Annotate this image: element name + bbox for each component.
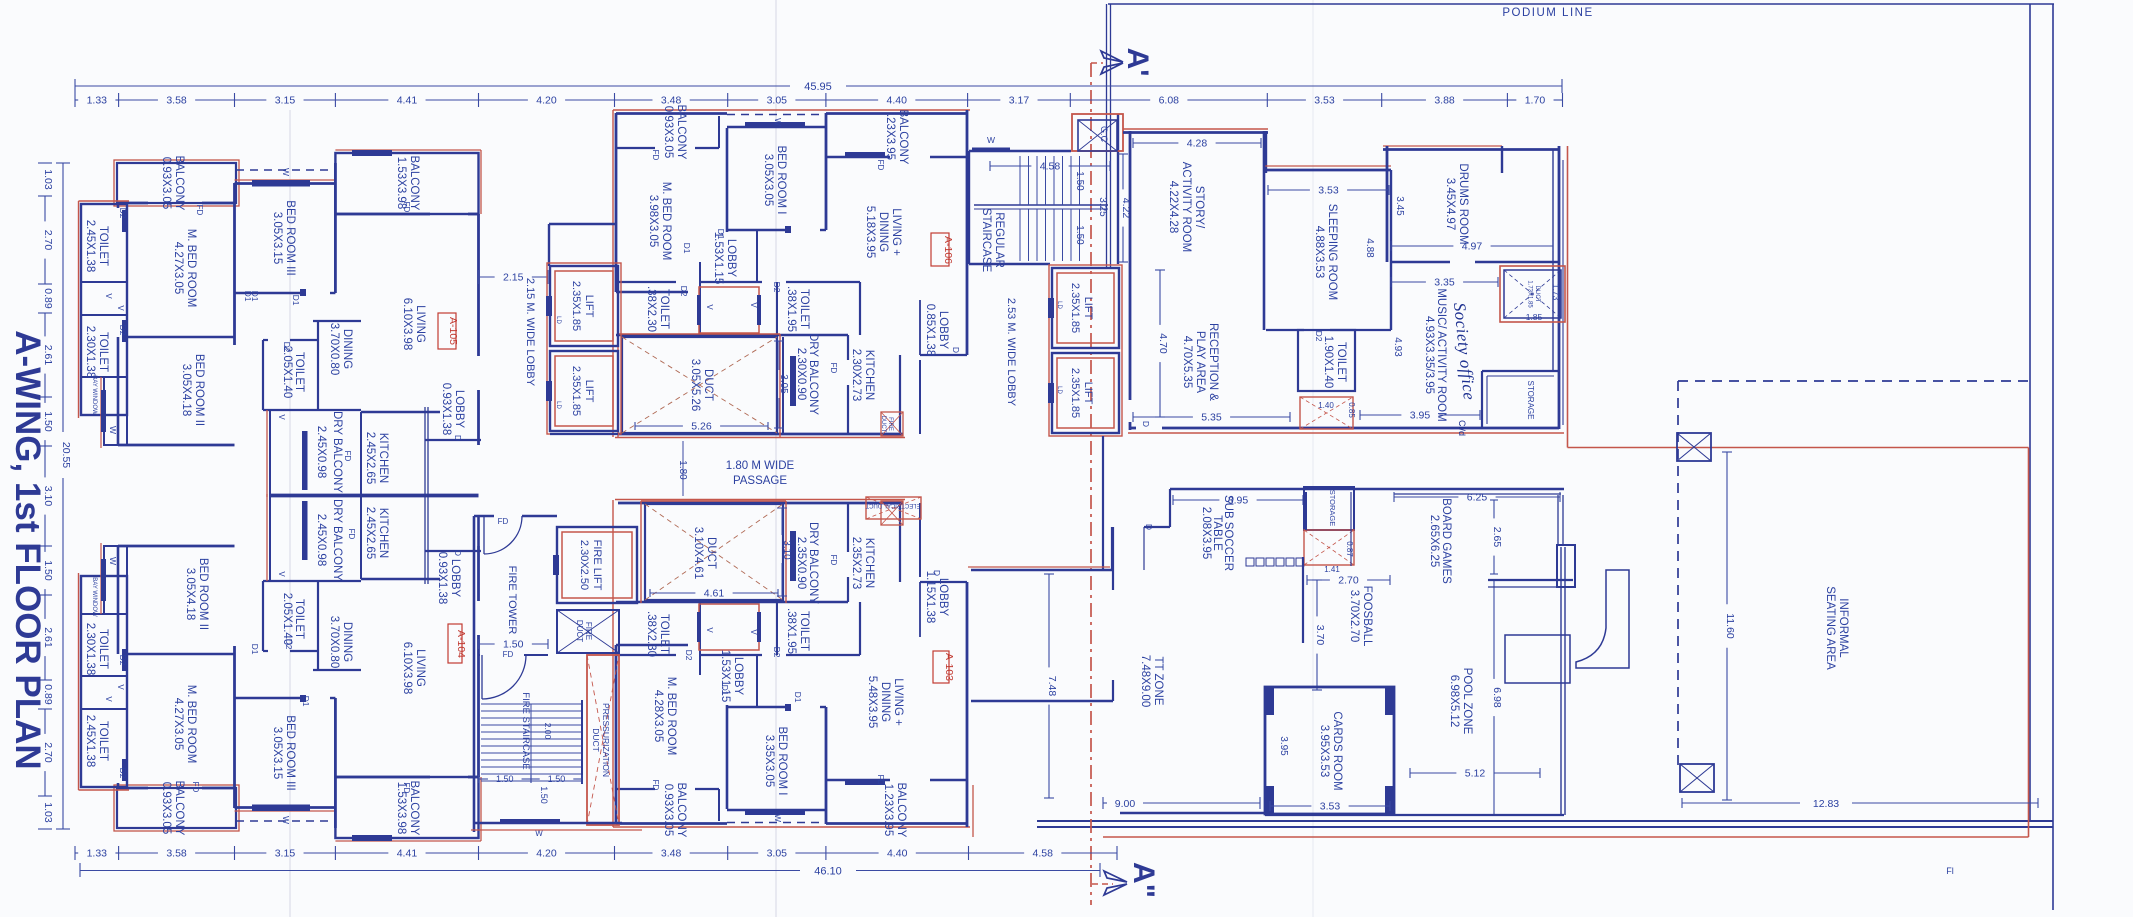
svg-text:FIRE LIFT: FIRE LIFT [591, 540, 603, 591]
svg-text:BAY WINDOW: BAY WINDOW [91, 577, 97, 617]
svg-text:M. BED ROOM: M. BED ROOM [665, 677, 677, 756]
svg-text:M. BED ROOM: M. BED ROOM [185, 685, 197, 764]
svg-text:D2: D2 [772, 282, 782, 293]
svg-text:4.20: 4.20 [536, 95, 557, 107]
svg-text:LD: LD [1056, 386, 1062, 394]
svg-text:STORY/: STORY/ [1193, 186, 1205, 229]
svg-text:6.10X3.98: 6.10X3.98 [401, 642, 413, 694]
right lift 2 door [1048, 383, 1054, 403]
electrical duct red box [866, 497, 921, 519]
rec storage walls [1304, 487, 1354, 530]
svg-text:4.70: 4.70 [1157, 333, 1169, 354]
svg-text:W: W [108, 557, 118, 565]
drums room top wall [1383, 148, 1559, 151]
svg-text:3.05X3.15: 3.05X3.15 [271, 727, 283, 779]
A-106 bottom red line [615, 437, 905, 439]
svg-text:TOILET: TOILET [798, 611, 810, 651]
BED ROOM III top wall [235, 182, 336, 185]
svg-text:BED ROOM I: BED ROOM I [776, 726, 788, 795]
drums top-right jog [1501, 146, 1503, 173]
svg-text:1.73X1.85: 1.73X1.85 [1527, 280, 1533, 308]
living room right wall lower [477, 390, 480, 445]
A-106 top outer wall left [616, 112, 727, 115]
dim 4.70 [1155, 269, 1165, 271]
svg-text:V: V [749, 629, 758, 635]
toilet band top wall with D2 gaps [786, 281, 860, 283]
svg-text:D1: D1 [250, 644, 260, 655]
fire lift door [553, 555, 559, 575]
svg-text:PLAY AREA: PLAY AREA [1194, 331, 1206, 394]
kitchen / dry balcony wall [360, 412, 362, 496]
svg-text:LOBBY: LOBBY [732, 657, 744, 696]
lobby left wall [919, 300, 921, 355]
svg-text:BALCONY: BALCONY [173, 156, 185, 211]
svg-text:1.80 M WIDE: 1.80 M WIDE [726, 460, 795, 472]
svg-text:1.40: 1.40 [1318, 401, 1334, 410]
svg-text:BALCONY: BALCONY [675, 105, 687, 160]
living room right wall upper [477, 214, 480, 356]
fire lift red cage [562, 532, 632, 598]
svg-text:POOL ZONE: POOL ZONE [1461, 668, 1473, 735]
svg-text:4.40: 4.40 [887, 95, 908, 107]
wall below toilet 2.05 / dry balcony top [263, 409, 361, 411]
svg-text:3.05: 3.05 [767, 95, 788, 107]
sleeping room top wall [1266, 169, 1391, 172]
svg-text:BED ROOM II: BED ROOM II [197, 558, 209, 630]
A-106 top outer wall right [826, 112, 967, 115]
svg-text:ELECTRICAL DUCT: ELECTRICAL DUCT [865, 502, 920, 508]
svg-text:0.93X3.05: 0.93X3.05 [662, 106, 674, 158]
svg-text:TOILET: TOILET [97, 629, 109, 669]
toilet2 left wall [776, 282, 778, 335]
svg-text:3.70X0.80: 3.70X0.80 [328, 616, 340, 668]
wall between shaft and toilet 2 [81, 314, 127, 316]
wing small duct box [1300, 397, 1353, 429]
A-105 toilet block red outline [78, 201, 80, 418]
svg-text:LIVING: LIVING [414, 649, 426, 687]
svg-text:D1: D1 [682, 243, 692, 254]
svg-text:FD: FD [343, 451, 352, 462]
svg-text:1.15X1.38: 1.15X1.38 [924, 571, 936, 623]
entry lobby bottom wall [425, 439, 481, 441]
svg-text:D2: D2 [118, 655, 128, 666]
svg-text:LIFT: LIFT [583, 380, 595, 403]
TT zone bottom wall [1120, 812, 1265, 814]
svg-text:7.48: 7.48 [1046, 676, 1058, 697]
window band near staircase [972, 148, 1010, 153]
wing right wall [1558, 146, 1561, 429]
outer notch wall [269, 410, 271, 496]
svg-text:11.60: 11.60 [1724, 613, 1736, 639]
drums room red top line [1383, 145, 1502, 147]
svg-text:4.22X4.28: 4.22X4.28 [1167, 181, 1179, 233]
svg-text:1.50: 1.50 [548, 774, 566, 784]
dimension 12.83 [1682, 802, 1800, 804]
svg-text:ACTIVITY ROOM: ACTIVITY ROOM [1180, 162, 1192, 253]
wing right wall inner line [1562, 160, 1564, 425]
svg-text:D1: D1 [720, 685, 730, 696]
dimension 2.15 lobby width [478, 270, 480, 284]
svg-text:LIFT: LIFT [583, 295, 595, 318]
G.C crossed box [1078, 120, 1117, 151]
BED ROOM III red top line [235, 179, 336, 181]
svg-text:2.45X1.38: 2.45X1.38 [84, 715, 96, 767]
svg-text:0.93X1.38: 0.93X1.38 [440, 383, 452, 435]
svg-text:3.70X2.70: 3.70X2.70 [1348, 590, 1360, 642]
rec top-left jog [1169, 489, 1171, 527]
svg-text:2.35X1.85: 2.35X1.85 [570, 366, 582, 416]
svg-text:BED ROOM I: BED ROOM I [775, 145, 787, 214]
svg-text:V: V [116, 684, 125, 690]
dining alcove left wall [317, 321, 319, 410]
svg-text:3.95X3.53: 3.95X3.53 [1318, 725, 1330, 777]
bay window glazing band [101, 390, 106, 432]
fire duct crossed box [557, 610, 619, 653]
informal seating dashed boundary [1678, 380, 2028, 382]
fire stair bottom wall [474, 822, 622, 825]
dimension 7.48 [1044, 573, 1054, 575]
step wall to pillar [1557, 495, 1559, 545]
svg-text:.38X1.95: .38X1.95 [785, 608, 797, 654]
svg-text:3.17: 3.17 [1009, 95, 1030, 107]
svg-text:D2: D2 [282, 342, 292, 353]
fire tower outer left wall [473, 516, 476, 832]
svg-text:4.88X3.53: 4.88X3.53 [1313, 226, 1325, 278]
svg-text:2.30X0.90: 2.30X0.90 [795, 348, 807, 400]
wing toilet walls [1298, 330, 1355, 391]
handwritten society office note [1450, 302, 1479, 402]
svg-text:.38X1.95: .38X1.95 [785, 286, 797, 332]
svg-text:2.15 M. WIDE LOBBY: 2.15 M. WIDE LOBBY [524, 278, 536, 387]
svg-text:1.33: 1.33 [87, 95, 108, 107]
storage top wall [1482, 370, 1559, 372]
red line on corridor wall [968, 566, 1110, 568]
svg-text:W: W [773, 118, 783, 126]
A-106 red top outline [613, 109, 970, 111]
svg-text:TOILET: TOILET [293, 352, 305, 392]
section arrow A&quot; (bottom) [1104, 871, 1127, 882]
svg-text:3.53: 3.53 [1320, 801, 1341, 813]
sleeping room bottom wall with D2 gap [1330, 329, 1391, 331]
dimension 4.22 right of staircase [1118, 153, 1128, 155]
svg-text:KITCHEN: KITCHEN [377, 433, 389, 483]
svg-text:LOBBY: LOBBY [937, 578, 949, 617]
svg-text:3.05X4.18: 3.05X4.18 [184, 568, 196, 620]
svg-text:2.70: 2.70 [42, 230, 54, 251]
svg-text:TOILET: TOILET [1335, 342, 1347, 382]
svg-text:FD: FD [402, 783, 411, 794]
svg-text:4.93X3.35/3.95: 4.93X3.35/3.95 [1423, 316, 1435, 394]
kitchen right wall [919, 360, 921, 434]
svg-text:FD: FD [191, 782, 200, 793]
A-106 internal lobby wall [756, 230, 758, 282]
svg-text:FIRE STAIRCASE: FIRE STAIRCASE [520, 692, 531, 769]
svg-text:1.53X1.15: 1.53X1.15 [712, 232, 724, 284]
svg-text:V: V [277, 571, 286, 577]
svg-text:3.05X5.26: 3.05X5.26 [689, 359, 701, 411]
svg-text:DRUMS ROOM: DRUMS ROOM [1457, 163, 1469, 244]
rec duct red box [1304, 530, 1354, 565]
svg-text:BALCONY: BALCONY [895, 783, 907, 838]
wall above dining alcove [313, 320, 361, 322]
svg-text:STORAGE: STORAGE [1328, 490, 1337, 527]
svg-text:V: V [705, 304, 714, 310]
pillar [1557, 545, 1575, 587]
svg-text:3.35: 3.35 [1434, 277, 1455, 289]
svg-text:D1: D1 [250, 291, 260, 302]
svg-text:3.58: 3.58 [166, 95, 187, 107]
svg-text:4.58: 4.58 [1040, 161, 1061, 173]
lift 2 red cage [555, 356, 613, 426]
svg-text:3.45X4.97: 3.45X4.97 [1444, 178, 1456, 230]
wing red top line [1123, 128, 1268, 130]
svg-text:TOILET: TOILET [658, 289, 670, 329]
svg-text:2.35X1.85: 2.35X1.85 [1069, 283, 1081, 333]
A-106 tag box [931, 233, 949, 266]
svg-text:TOILET: TOILET [97, 226, 109, 266]
pool area wall y580 [1488, 579, 1573, 581]
svg-text:FD: FD [498, 517, 509, 526]
svg-text:KITCHEN: KITCHEN [863, 350, 875, 400]
rec top wall inner line [1394, 493, 1561, 495]
toilet1 right wall [699, 282, 701, 335]
svg-text:RECEPTION &: RECEPTION & [1207, 323, 1219, 401]
svg-text:1.03: 1.03 [42, 802, 54, 823]
svg-text:FD: FD [651, 150, 660, 161]
right lift 1 door [1048, 298, 1054, 318]
svg-text:12.83: 12.83 [1813, 798, 1839, 810]
svg-text:PRESSURIZATION: PRESSURIZATION [601, 703, 611, 777]
svg-text:4.28X3.05: 4.28X3.05 [652, 690, 664, 742]
svg-text:2.53 M. WIDE LOBBY: 2.53 M. WIDE LOBBY [1005, 298, 1017, 407]
svg-text:BED ROOM III: BED ROOM III [284, 200, 296, 275]
svg-text:4.27X3.05: 4.27X3.05 [172, 242, 184, 294]
drums/storage strip inner wall [1552, 150, 1554, 371]
corridor wall y701 [971, 700, 1113, 702]
svg-text:DINING: DINING [341, 329, 353, 369]
step wall story/sleeping [1265, 131, 1267, 173]
notch red outline [266, 410, 268, 497]
toilet2 right wall [859, 282, 861, 335]
D1 jamb [785, 226, 791, 233]
BED ROOM I bottom wall with D1 gap [820, 229, 826, 231]
svg-text:MUSIC/ ACTIVITY ROOM: MUSIC/ ACTIVITY ROOM [1435, 288, 1447, 421]
svg-text:SEATING AREA: SEATING AREA [1824, 586, 1836, 670]
podium border bottom double line [1037, 820, 2053, 822]
svg-text:V: V [277, 414, 286, 420]
svg-text:1.90X1.40: 1.90X1.40 [1322, 336, 1334, 388]
svg-text:DUCT: DUCT [880, 416, 886, 433]
svg-text:M. BED ROOM: M. BED ROOM [660, 182, 672, 261]
svg-text:1.33: 1.33 [87, 848, 108, 860]
svg-text:TOILET: TOILET [293, 599, 305, 639]
TT zone left wall segments [1112, 680, 1114, 701]
svg-text:0.89: 0.89 [42, 288, 54, 309]
window band bottom [500, 819, 560, 824]
svg-text:Fl: Fl [1946, 866, 1954, 876]
svg-text:DUCT: DUCT [575, 620, 584, 642]
DUCT 3.05X5.26 (A-106) [617, 334, 619, 437]
D1 jamb [300, 289, 306, 296]
BED ROOM III window band [252, 180, 310, 187]
kitchen block right wall [899, 355, 901, 434]
svg-text:2.35X1.85: 2.35X1.85 [570, 281, 582, 331]
svg-text:LIVING: LIVING [414, 305, 426, 343]
svg-text:DINING: DINING [341, 622, 353, 662]
svg-text:DRY BALCONY: DRY BALCONY [331, 499, 343, 581]
storage inner line [1487, 375, 1554, 377]
section arrow A' (top) [1101, 51, 1123, 62]
svg-text:0.85: 0.85 [1347, 402, 1356, 418]
svg-text:W: W [773, 814, 783, 822]
rec bottom wall [1265, 814, 1564, 816]
A-106 balcony right wall [718, 116, 720, 148]
svg-text:4.27X3.05: 4.27X3.05 [172, 698, 184, 750]
BED ROOM II bottom wall [118, 444, 235, 447]
svg-text:TOILET: TOILET [97, 721, 109, 761]
svg-text:LIVING +: LIVING + [890, 208, 902, 256]
svg-text:3.05X4.18: 3.05X4.18 [180, 364, 192, 416]
svg-text:2.30X2.50: 2.30X2.50 [578, 540, 590, 590]
story room dims [1132, 138, 1134, 148]
svg-text:3.10: 3.10 [781, 540, 792, 560]
svg-text:1.50: 1.50 [503, 639, 524, 651]
svg-text:3.15: 3.15 [275, 95, 296, 107]
svg-text:V: V [749, 302, 758, 308]
svg-text:2.45X2.65: 2.45X2.65 [364, 432, 376, 484]
top dimension chain [74, 93, 76, 107]
svg-text:DRY BALCONY: DRY BALCONY [807, 522, 819, 604]
svg-text:FD: FD [829, 555, 838, 566]
overall dimension 20.55 [62, 163, 64, 432]
svg-text:D2: D2 [679, 286, 689, 297]
svg-text:LIFT: LIFT [1082, 382, 1094, 405]
svg-text:BED ROOM II: BED ROOM II [193, 354, 205, 426]
apartment A-105 wall geometry (mirrored below as A-104) [79, 150, 482, 497]
svg-text:TOILET: TOILET [798, 289, 810, 329]
svg-text:FD: FD [402, 202, 411, 213]
svg-text:4.28: 4.28 [1187, 138, 1208, 150]
fire lift walls [557, 527, 637, 603]
svg-text:FIRE: FIRE [887, 417, 893, 431]
svg-text:2.30X1.38: 2.30X1.38 [84, 326, 96, 378]
A-104 tag box [448, 624, 462, 663]
svg-text:BOARD GAMES: BOARD GAMES [1440, 498, 1452, 584]
wall above duct/kitchen band [616, 334, 848, 337]
right lift 2 walls [1052, 353, 1119, 433]
svg-text:4.58: 4.58 [1033, 848, 1054, 860]
dry balcony left wall [782, 337, 784, 434]
svg-text:D: D [453, 550, 463, 556]
svg-text:4.20: 4.20 [536, 848, 557, 860]
fire tower top wall with FD gap [522, 515, 557, 518]
svg-text:.38X2.30: .38X2.30 [645, 611, 657, 657]
svg-text:5.26: 5.26 [691, 421, 712, 433]
party wall A-105/A-104 [270, 495, 479, 498]
living balcony window band [845, 152, 885, 158]
svg-text:LOBBY: LOBBY [449, 559, 461, 598]
fire tower mid wall [524, 654, 548, 656]
svg-text:9.00: 9.00 [1115, 798, 1136, 810]
svg-text:V: V [104, 696, 113, 702]
wall below left lifts [550, 433, 618, 435]
svg-text:BED ROOM III: BED ROOM III [284, 715, 296, 790]
svg-text:3.05: 3.05 [767, 848, 788, 860]
fire tower left wall top segment [477, 516, 480, 546]
podium line border top [1108, 3, 2054, 5]
rec area top wall [1170, 488, 1564, 491]
svg-text:1.23X3.95: 1.23X3.95 [882, 784, 894, 836]
staircase right wall [1117, 114, 1119, 264]
svg-text:LOBBY: LOBBY [937, 311, 949, 350]
storage left wall [1481, 371, 1483, 428]
storage left wall lower [1305, 492, 1307, 530]
lift 2 door [546, 381, 552, 401]
svg-text:4.40: 4.40 [887, 848, 908, 860]
svg-text:2.30X2.73: 2.30X2.73 [850, 349, 862, 401]
apartment A-106 wall geometry (mirrored below as A-103) [613, 110, 970, 438]
svg-text:A-105: A-105 [447, 317, 459, 345]
wing left wall with door gap [1129, 422, 1132, 430]
svg-text:4.41: 4.41 [397, 95, 418, 107]
svg-text:D2: D2 [772, 647, 782, 658]
dimension 3.70 foosball [1312, 579, 1322, 581]
svg-text:FIRE TOWER: FIRE TOWER [506, 566, 518, 635]
svg-text:4.70X5.35: 4.70X5.35 [1181, 336, 1193, 388]
corridor wall y570 [971, 569, 1112, 571]
svg-text:1.85: 1.85 [1526, 312, 1543, 322]
svg-text:3.10X4.61: 3.10X4.61 [692, 527, 704, 579]
svg-text:W: W [987, 135, 995, 145]
dashed projection line above BED ROOM III [236, 169, 335, 171]
wing duct red box [1500, 266, 1565, 322]
dimension 11.60 [1722, 451, 1732, 453]
svg-text:2.70: 2.70 [1338, 575, 1359, 587]
svg-text:3.05X3.05: 3.05X3.05 [762, 154, 774, 206]
svg-text:0.93X3.05: 0.93X3.05 [662, 784, 674, 836]
door leaf 2 [481, 655, 483, 699]
svg-text:DUCT: DUCT [705, 537, 717, 569]
svg-text:3.98X3.05: 3.98X3.05 [647, 195, 659, 247]
A-105 balcony walls [117, 163, 236, 203]
svg-text:3.70: 3.70 [1314, 625, 1326, 646]
svg-text:A-104: A-104 [455, 630, 467, 658]
svg-text:LOBBY: LOBBY [453, 390, 465, 429]
podium border vertical at section [1110, 4, 1112, 267]
svg-text:0.85X1.38: 0.85X1.38 [924, 304, 936, 356]
BED ROOM I right wall [825, 113, 828, 230]
svg-text:W: W [108, 426, 118, 434]
svg-text:1.50: 1.50 [496, 774, 514, 784]
fire duct box [881, 412, 903, 436]
A-106 bottom outer wall [618, 433, 903, 436]
wing top wall (story room) [1123, 131, 1268, 134]
svg-text:A-WING, 1st FLOOR PLAN: A-WING, 1st FLOOR PLAN [8, 330, 47, 769]
living balcony walls [335, 153, 478, 214]
overall dimension 45.95 [75, 85, 790, 87]
pool table rectangle [1505, 635, 1570, 683]
right lift 1 red cage [1057, 273, 1114, 343]
ventilation shaft red box [699, 287, 759, 333]
svg-text:A": A" [1127, 862, 1160, 898]
living balcony red outline [335, 149, 481, 151]
svg-text:2.45X0.98: 2.45X0.98 [315, 426, 327, 478]
dimension 4.58 in staircase [989, 161, 991, 171]
svg-text:DINING: DINING [877, 212, 889, 252]
A-103 tag box [933, 651, 949, 683]
svg-text:FD: FD [876, 160, 885, 171]
svg-text:KITCHEN: KITCHEN [377, 508, 389, 558]
